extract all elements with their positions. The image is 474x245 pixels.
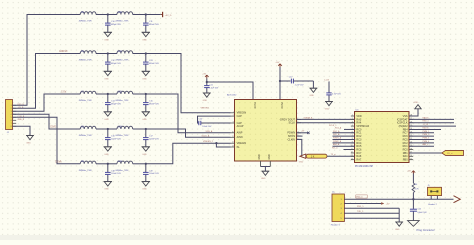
wire row2 to U1 VREGIN [146,54,231,113]
svg-text:GND: GND [299,162,304,164]
ground at connector [26,136,34,145]
port chevron (prog) [454,196,461,203]
svg-text:JWMiller_TWK: JWMiller_TWK [115,135,129,137]
svg-text:GND: GND [104,78,109,80]
ground (flipped) above U3 [414,102,422,109]
svg-text:3: 3 [11,111,12,113]
svg-text:RX_si: RX_si [332,148,338,150]
svg-text:2: 2 [233,115,234,117]
svg-text:VREGIN: VREGIN [237,142,247,145]
svg-text:C5VD: C5VD [50,127,56,129]
wire U3 pin to net AN4_s [409,145,434,147]
inductor L7 [79,91,96,102]
power port +5V (KVDD rail) [202,74,208,79]
svg-text:JWMiller_TWK: JWMiller_TWK [115,100,129,102]
connector J4 Header 5 [331,192,345,227]
wire pin1 riser to row1 [13,15,81,106]
svg-text:16: 16 [410,155,412,157]
svg-text:CLKIN: CLKIN [288,138,296,141]
svg-text:GND_5: GND_5 [356,196,364,198]
inductor L23 [115,126,132,137]
svg-text:680nF 50V: 680nF 50V [149,103,159,105]
capacitor C13 with ground [142,52,160,80]
svg-text:RC6_A: RC6_A [335,126,342,129]
wire cap to ground [312,81,314,88]
svg-text:IN-: IN- [237,146,241,149]
net label C+5V_A with capacitor C23 to ground [324,79,341,110]
wire J4 pin1 (+5V rail) to prog port [344,198,453,200]
inductor L24 [115,161,132,172]
power port +5V (arrow) [381,203,390,206]
capacitor C20 (series, between CAP pins) [199,119,213,128]
svg-text:6: 6 [11,120,12,122]
svg-text:+5V: +5V [275,62,279,64]
wire U3 pin to net +5_LR [409,125,456,127]
svg-text:2.2uF 16V: 2.2uF 16V [295,85,304,87]
ground arrow at R1 left [299,154,306,164]
capacitor C14 with ground [104,93,122,121]
power port +5V above R6 [407,171,415,174]
svg-text:JWMiller_TWK: JWMiller_TWK [79,100,93,102]
svg-text:14: 14 [351,158,353,160]
svg-text:GND: GND [26,142,31,144]
svg-text:100nF 16V: 100nF 16V [149,173,159,175]
svg-text:C-5VA: C-5VA [55,161,62,164]
svg-text:RXD15: RXD15 [423,127,429,129]
wire row5 to U1 VREGIN2 [146,143,231,164]
inductor L21 [115,51,132,62]
ground under U1 [261,171,269,180]
wire L6 to junction [96,53,108,55]
junction on DVDD rail [279,80,281,82]
svg-text:GND: GND [104,119,109,121]
svg-text:JWMiller_TWK: JWMiller_TWK [79,21,93,23]
svg-text:C21: C21 [209,85,212,87]
wire L9 to junction [96,163,108,165]
svg-text:680pF 50V: 680pF 50V [111,63,121,65]
svg-text:C-5V: C-5V [61,92,67,94]
wire pin5 riser to row5 [13,117,81,164]
wire row3 to U1 AINP [146,94,231,133]
svg-text:ACAP: ACAP [237,125,244,128]
jumper pin wires [431,196,437,200]
wire U1 CAP pin loop [198,116,231,123]
wire L7 to junction [96,93,108,95]
svg-text:GND: GND [104,189,109,191]
svg-text:+5_LR: +5_LR [423,124,429,126]
svg-text:PWM_2: PWM_2 [423,134,430,136]
svg-text:SDN_A: SDN_A [206,130,213,133]
svg-text:GND: GND [261,178,266,180]
svg-text:VREGIN_2: VREGIN_2 [203,141,214,143]
resistor R1 1K [306,154,327,158]
wire U3 pin to net RXD15 [409,128,441,130]
inductor L9 [79,161,96,172]
svg-text:JWMiller_TWK: JWMiller_TWK [79,60,93,62]
svg-text:1: 1 [233,111,234,113]
svg-text:GND: GND [142,189,147,191]
wire +5V to DVDD pin of U1 [279,67,281,100]
wire U3 to RX flag [409,152,442,154]
svg-text:RB0: RB0 [403,159,408,162]
svg-text:TX_si: TX_si [331,154,337,156]
svg-text:7: 7 [11,123,12,125]
svg-text:Header 5: Header 5 [331,223,341,226]
svg-text:GND: GND [142,78,147,80]
svg-text:GND: GND [309,95,314,97]
svg-text:SCLK: SCLK [288,122,295,125]
svg-text:SCLK_A: SCLK_A [202,134,210,137]
wire pin2 riser to row2 [13,54,81,109]
ground at J4 [395,222,403,231]
svg-text:RXD_5: RXD_5 [357,206,364,208]
svg-text:2: 2 [11,108,12,110]
capacitor C15 with ground [142,93,160,121]
wire cap to U1 CAP2 pin [201,122,231,124]
wire pin3 riser to row3 [13,94,81,111]
svg-text:1 K: 1 K [311,155,315,158]
svg-text:8: 8 [11,126,12,128]
svg-text:GND: GND [104,154,109,156]
wire R1 to U2 (TX) [327,155,355,157]
svg-text:KVDD: KVDD [253,102,255,109]
svg-text:+5V: +5V [386,204,390,206]
svg-text:JWMiller_TWK: JWMiller_TWK [79,170,93,172]
svg-text:SDO_A: SDO_A [333,130,340,133]
svg-text:GND: GND [203,100,208,102]
svg-text:100nF 16V: 100nF 16V [111,138,121,140]
wire U3 pin to net PWM_4 [409,142,434,144]
svg-text:GND_B: GND_B [18,119,25,121]
power port +5V (DVDD rail) [275,62,281,67]
svg-text:680pF 50V: 680pF 50V [111,103,121,105]
capacitor C16 with ground [104,128,122,156]
wire junction to L21 [108,53,117,55]
power port +5V_D (bar) [161,12,172,17]
wire J4 pin4 (TXD) [344,212,399,214]
wire L5 to junction [96,14,108,16]
capacitor C21 to ground (KVDD decoupling) [201,82,219,110]
port flag RX_si [442,150,464,155]
svg-text:C+5V: C+5V [324,79,330,81]
svg-text:680nF 50V: 680nF 50V [149,63,159,65]
svg-text:Prog Connector: Prog Connector [417,228,435,232]
op-amp/ADC U1 (ADS1232) [227,94,301,161]
svg-text:PIC16F1936-I/SP: PIC16F1936-I/SP [355,166,373,168]
wire row4 to U1 AINN [146,129,231,137]
wire down to ground J4 [398,218,400,222]
svg-text:JWMiller_TWK: JWMiller_TWK [79,135,93,137]
svg-text:12: 12 [232,142,234,144]
svg-text:RA7: RA7 [356,159,361,162]
wire stub PWM2_A [333,142,356,144]
svg-text:AN4_s: AN4_s [423,143,429,146]
svg-text:11: 11 [232,136,234,138]
svg-text:GND/VF: GND/VF [59,51,68,53]
svg-text:680pF 50V: 680pF 50V [111,24,121,26]
capacitor C19 with ground [142,163,160,191]
wire L23 to junction 2 [133,128,146,130]
inductor L22 [115,91,132,102]
svg-text:C22: C22 [289,76,292,78]
svg-text:DVDD: DVDD [280,102,282,109]
connector J2 (Header 8, input) [6,100,17,135]
inductor L20 [115,12,132,23]
net label GND_5 (boxed) [356,195,368,199]
wire U3 pin to net RA2D5 [409,118,454,120]
svg-text:PWM_1: PWM_1 [423,131,430,133]
wire J4 pin3 (RXD) [344,207,399,209]
svg-text:Header 2: Header 2 [428,203,437,206]
svg-text:15: 15 [410,158,412,160]
svg-text:GND: GND [269,154,271,159]
inductor L8 [79,126,96,137]
svg-text:100nF 16V: 100nF 16V [111,173,121,175]
svg-text:GND: GND [142,154,147,156]
wire junction to U1 IN- [216,143,230,147]
inductor L5 [79,12,96,23]
svg-text:+5V: +5V [407,171,411,173]
svg-text:PWM1_A: PWM1_A [333,137,342,140]
wire L20 to junction 2 [133,14,146,16]
wire stub SCK_A [333,135,356,137]
svg-text:PWM2_A: PWM2_A [333,140,342,143]
svg-text:PWM_4: PWM_4 [423,141,430,143]
svg-text:RXD_1: RXD_1 [423,121,429,123]
svg-text:CAP: CAP [237,115,242,118]
wire J4 pin2 to +5V arrow [344,203,381,205]
wire junction to L24 [108,163,117,165]
svg-text:GND: GND [259,154,261,159]
wire U1 DOUT to U2 (SDATA) [297,118,356,120]
wire junction to L20 [108,14,117,16]
wire U1 SCLK to U2 [297,122,356,124]
stub U1 SPI pin [297,135,303,137]
svg-text:1: 1 [11,105,12,107]
wire U3 pin to net RXD_1 [409,122,454,124]
svg-text:JWMiller_TWK: JWMiller_TWK [115,21,129,23]
wire U3 pin to net PWM_3 [409,139,434,141]
wire U1 CLKIN down to resistor node [297,139,302,156]
wire U3 pin to net PWM_1 [409,132,434,134]
wire pin4 riser to row4 [13,114,81,129]
svg-text:C24: C24 [417,208,420,210]
svg-text:JWMiller_TWK: JWMiller_TWK [115,170,129,172]
svg-text:GND: GND [414,102,419,104]
svg-text:+5V_D: +5V_D [165,15,172,17]
junction node on VREGIN2 wire [215,142,217,144]
wire L21 to junction 2 [133,53,146,55]
svg-text:12: 12 [351,152,353,154]
svg-text:100nF 16V: 100nF 16V [149,138,159,140]
svg-text:ADS1232: ADS1232 [227,94,237,97]
svg-text:RX_si: RX_si [447,153,453,155]
net labels at connector pins [18,104,25,121]
wire pin8 to ground [13,126,31,135]
svg-text:GND: GND [395,229,400,231]
svg-text:3: 3 [352,121,353,123]
svg-text:100nF 50V: 100nF 50V [417,212,427,214]
wire L24 to junction 2 [133,163,146,165]
wire U1 GND pins to ground [261,161,271,171]
capacitor C22 (DVDD decoupling, series to gnd) [280,76,313,86]
svg-text:13: 13 [351,155,353,157]
capacitor C10 with ground [104,13,122,41]
svg-text:4.7uF 16V: 4.7uF 16V [332,94,341,96]
wire junction to L23 [108,128,117,130]
svg-text:2: 2 [352,118,353,120]
svg-text:SDATA_A: SDATA_A [304,116,313,119]
svg-text:11: 11 [351,148,353,150]
capacitor C12 with ground [104,52,122,80]
wire stub RC1 with label [344,128,355,130]
ground (DVDD decoupling) [309,88,317,97]
resistor R6 4.7K (vertical) [412,174,419,200]
stub U1 PDWN with no-ERC cross [297,131,310,134]
wire J4 pin5 to ground [344,208,399,218]
wire RX stub to U2 [344,149,356,151]
wire stub PWM1_A [333,139,356,141]
wire +5V to KVDD pin of U1 [207,78,253,100]
svg-text:4: 4 [352,125,353,127]
jumper J5 Header 2 [428,185,442,206]
svg-text:680nF 50V: 680nF 50V [149,24,159,26]
svg-text:TXD_5: TXD_5 [357,211,364,213]
junction on prog rail [412,198,414,200]
wire row1 to +5V bar [146,14,161,16]
svg-text:VREGIN 1: VREGIN 1 [201,108,210,110]
wire U3 VSS up to ground [409,109,418,116]
svg-text:4: 4 [11,114,12,116]
svg-text:SCK_A: SCK_A [333,133,340,136]
svg-text:5: 5 [11,117,12,119]
svg-text:R6: R6 [415,184,417,186]
svg-text:RA2D5: RA2D5 [423,116,429,119]
microcontroller U3 PIC16F1936 [351,110,413,168]
svg-text:C20: C20 [199,119,202,121]
svg-text:1.0uF 16V: 1.0uF 16V [209,88,218,90]
ground under C24 [408,221,420,227]
wire U3 pin to net PWM_2 [409,135,434,137]
wire L8 to junction [96,128,108,130]
svg-text:AINP: AINP [237,132,243,135]
svg-text:GND: GND [142,39,147,41]
svg-text:18: 18 [410,148,412,150]
wire stub SDO_A [333,132,356,134]
svg-text:JWMiller_TWK: JWMiller_TWK [115,60,129,62]
svg-text:100nF 50V: 100nF 50V [202,126,212,128]
svg-text:PWM_3: PWM_3 [423,138,430,140]
junction on KVDD rail [206,81,208,83]
inductor L6 [79,51,96,62]
capacitor C11 with ground [142,13,160,41]
svg-text:1: 1 [352,115,353,117]
svg-text:GND: GND [325,108,330,110]
capacitor C24 to ground [410,199,427,220]
svg-text:GND: GND [104,39,109,41]
svg-text:GND: GND [142,119,147,121]
svg-text:AN4_A: AN4_A [333,143,340,146]
wire stub AN4_A [333,145,356,147]
capacitor C18 with ground [104,163,122,191]
svg-text:13: 13 [232,146,234,148]
wire L22 to junction 2 [133,93,146,95]
capacitor C17 with ground [142,128,160,156]
wire junction to L22 [108,93,117,95]
svg-text:10: 10 [232,131,234,133]
svg-text:AINN: AINN [237,136,243,139]
svg-text:8: 8 [233,122,234,124]
